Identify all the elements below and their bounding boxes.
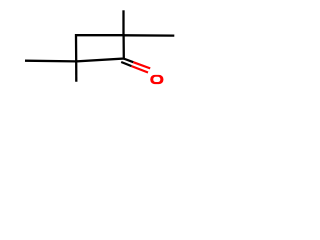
C3=O double bond lower line red half (132, 66, 149, 72)
C3=O double bond lower line black half (121, 62, 131, 66)
methyl bond down from C4 (75, 61, 77, 81)
oxygen atom label O (counter/hole) (153, 77, 160, 82)
methyl bond up from C2 (122, 10, 124, 35)
C3=O double bond upper line black half (124, 59, 134, 63)
cyclobutane ring C1-C2-C3-C4 (76, 35, 124, 61)
methyl bond right from C2 (124, 34, 175, 37)
oxygen atom label O (outer) (150, 75, 163, 84)
methyl bond left from C4 (25, 60, 76, 63)
C3=O double bond upper line red half (133, 62, 150, 68)
